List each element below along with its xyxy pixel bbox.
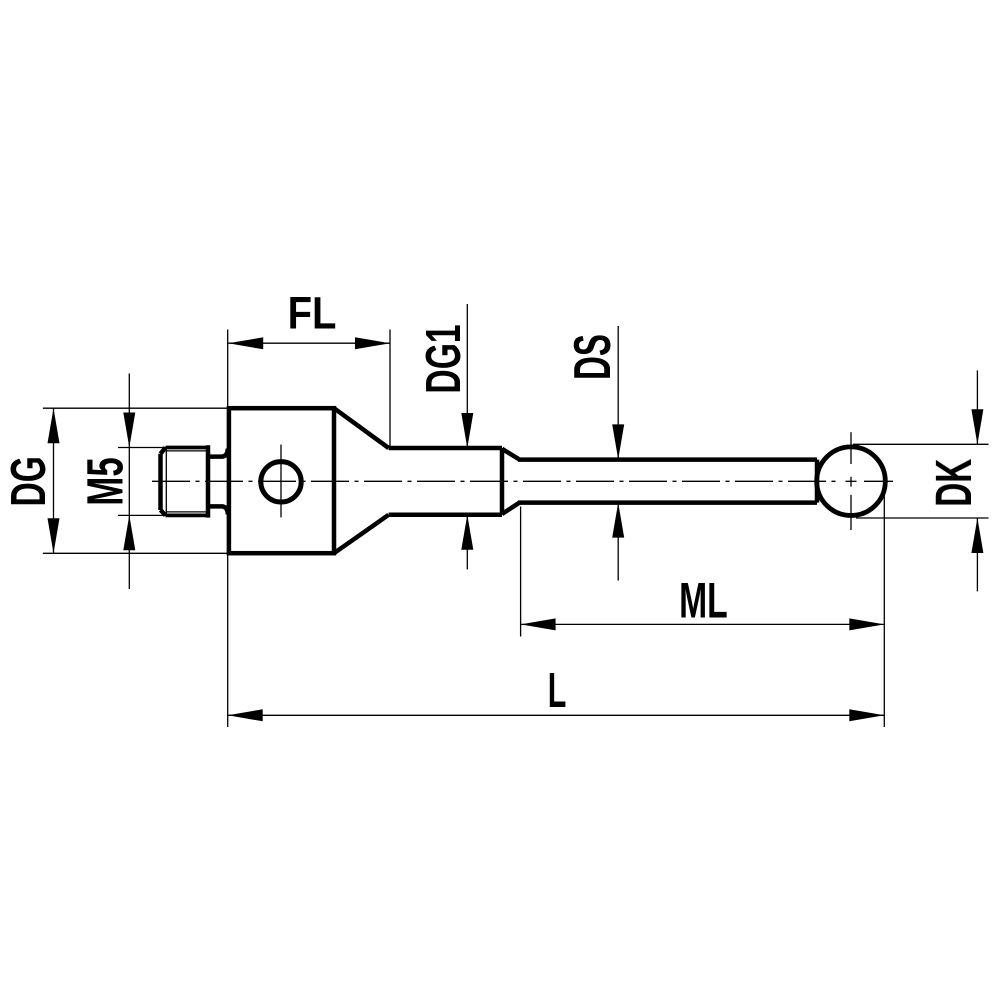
svg-text:DK: DK (926, 459, 983, 507)
svg-text:DS: DS (565, 334, 622, 380)
svg-text:DG: DG (0, 456, 55, 506)
svg-text:FL: FL (288, 288, 337, 339)
svg-text:M5: M5 (77, 457, 134, 505)
svg-text:ML: ML (679, 573, 728, 629)
svg-text:DG1: DG1 (416, 324, 471, 393)
svg-text:L: L (548, 663, 567, 718)
